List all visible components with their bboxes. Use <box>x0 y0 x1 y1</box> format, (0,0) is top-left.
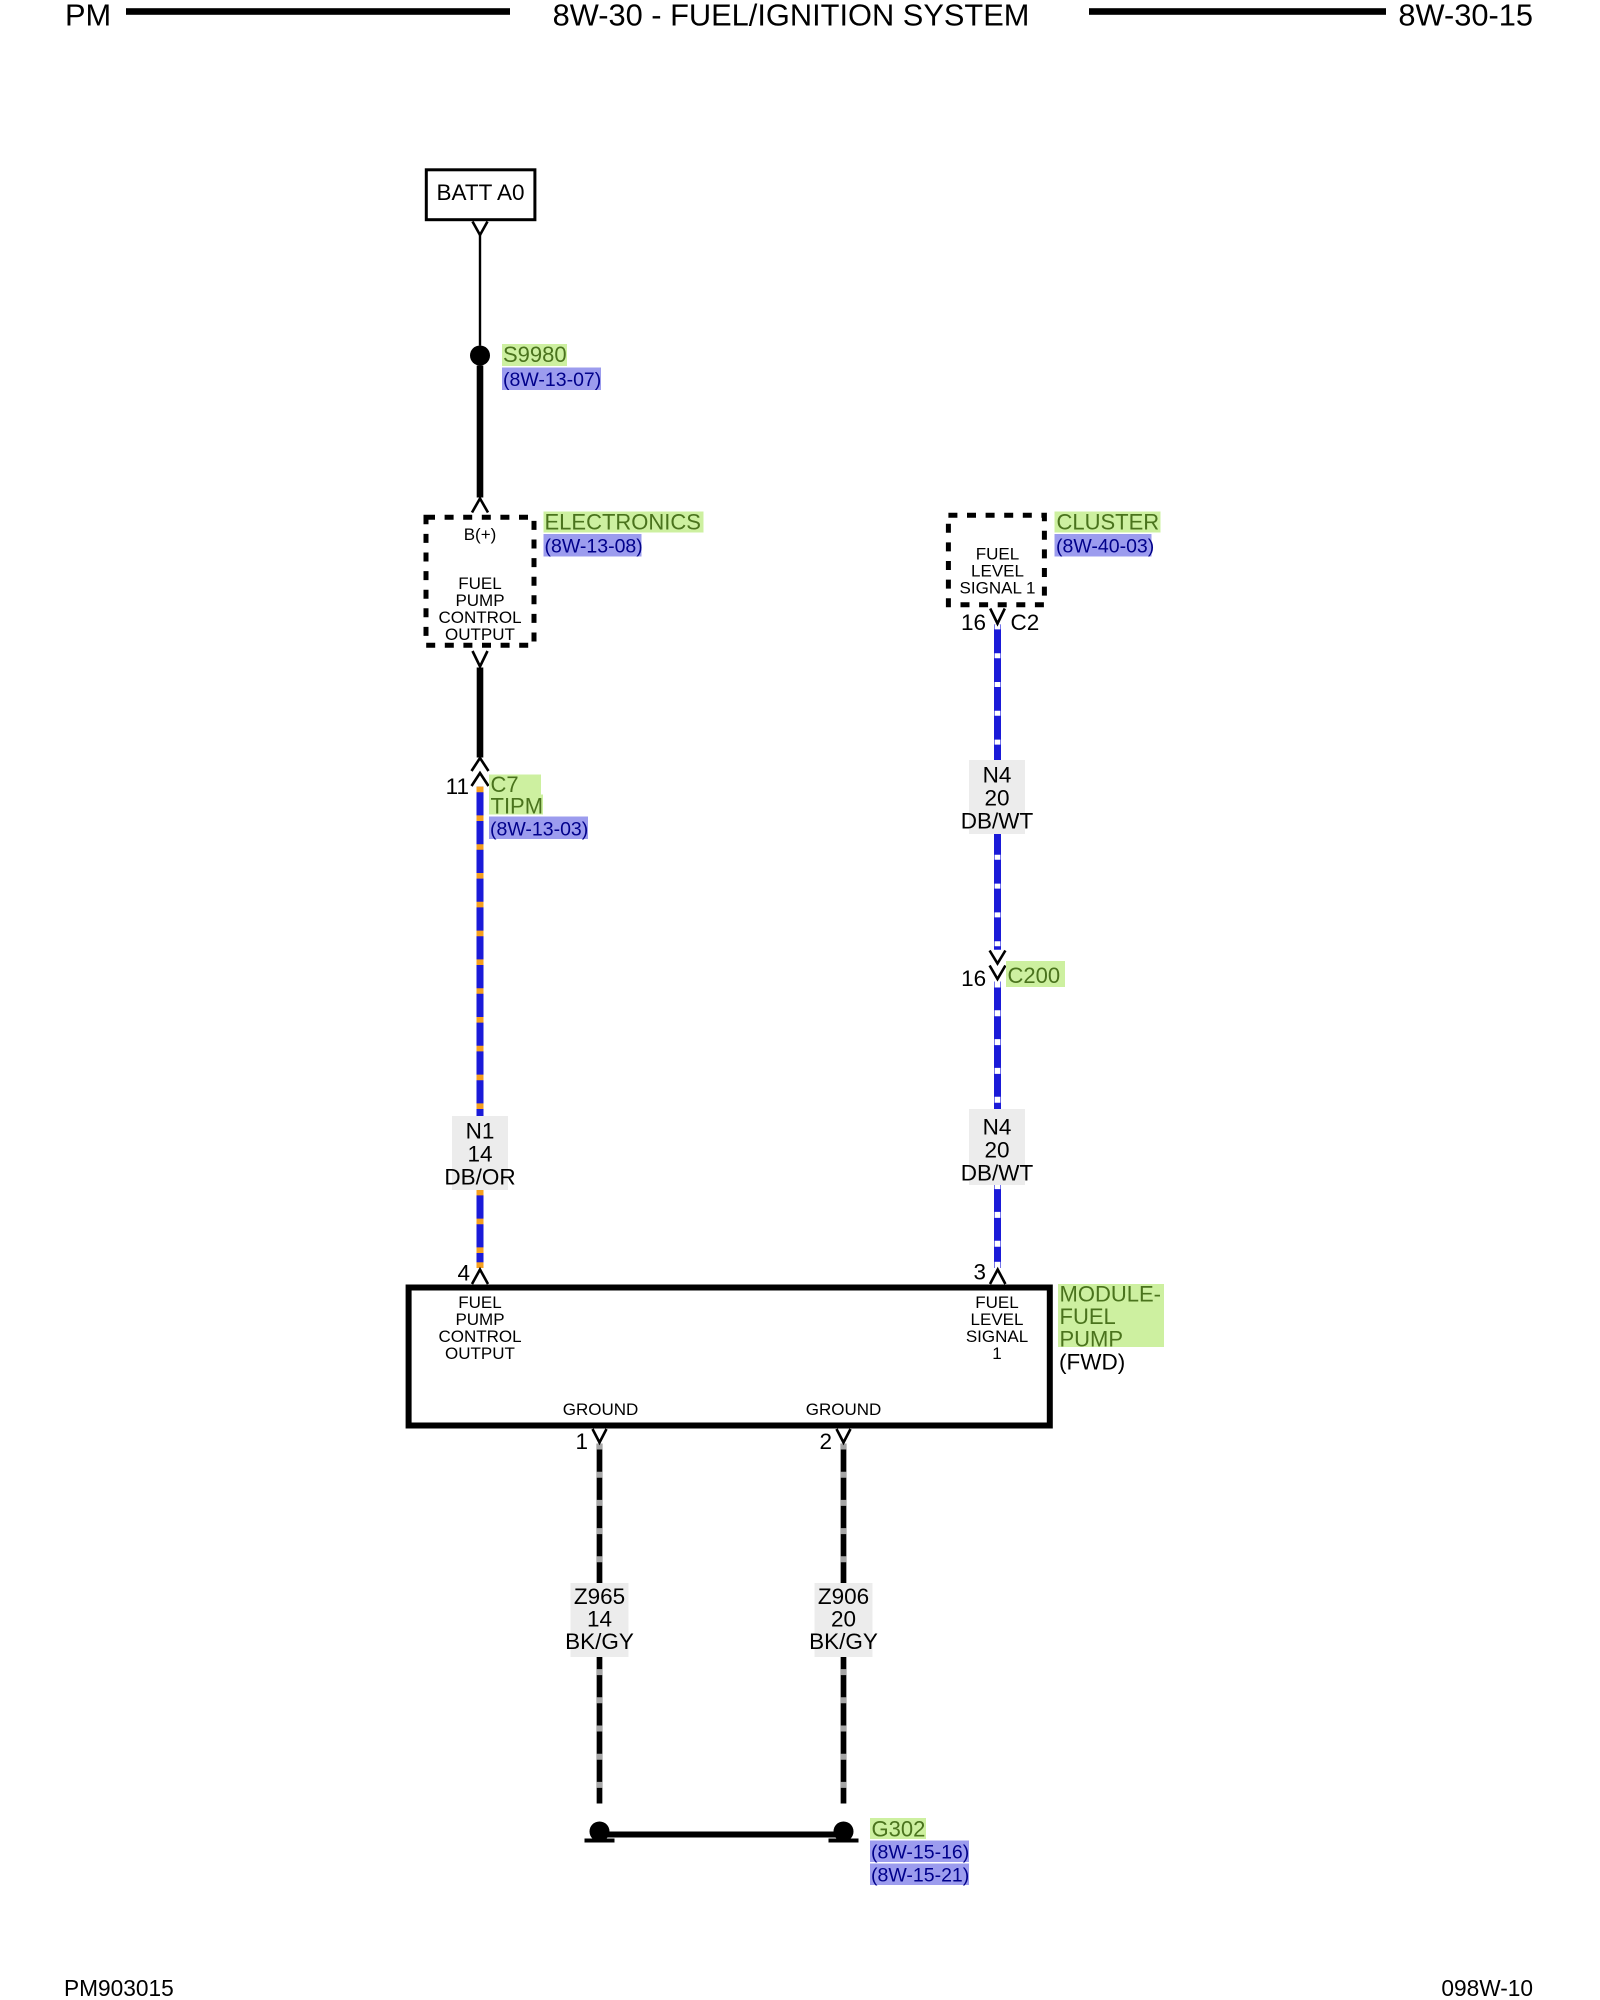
svg-text:20: 20 <box>984 786 1009 811</box>
svg-text:GROUND: GROUND <box>806 1400 882 1419</box>
svg-text:16: 16 <box>961 966 986 991</box>
svg-text:GROUND: GROUND <box>563 1400 639 1419</box>
svg-text:1: 1 <box>575 1429 588 1454</box>
svg-text:4: 4 <box>457 1261 470 1286</box>
svg-text:OUTPUT: OUTPUT <box>445 625 515 644</box>
svg-text:B(+): B(+) <box>464 525 497 544</box>
svg-text:2: 2 <box>819 1429 832 1454</box>
svg-text:20: 20 <box>984 1138 1009 1163</box>
svg-text:OUTPUT: OUTPUT <box>445 1344 515 1363</box>
svg-text:SIGNAL 1: SIGNAL 1 <box>960 579 1036 598</box>
svg-text:PM903015: PM903015 <box>64 1975 174 2000</box>
svg-text:TIPM: TIPM <box>491 794 544 819</box>
svg-text:14: 14 <box>467 1142 492 1167</box>
svg-text:20: 20 <box>831 1607 856 1632</box>
svg-text:N4: N4 <box>983 763 1012 788</box>
svg-text:1: 1 <box>992 1344 1001 1363</box>
svg-text:(8W-13-03): (8W-13-03) <box>490 819 588 841</box>
svg-text:BK/GY: BK/GY <box>809 1629 878 1654</box>
svg-text:(8W-13-08): (8W-13-08) <box>545 536 643 558</box>
svg-text:16: 16 <box>961 610 986 635</box>
svg-text:3: 3 <box>973 1260 986 1285</box>
svg-text:11: 11 <box>446 774 469 799</box>
svg-text:098W-10: 098W-10 <box>1441 1975 1533 2000</box>
svg-text:C200: C200 <box>1008 963 1061 988</box>
svg-text:FUEL: FUEL <box>1060 1304 1116 1329</box>
svg-text:Z906: Z906 <box>818 1584 869 1609</box>
svg-text:C2: C2 <box>1011 610 1040 635</box>
svg-text:S9980: S9980 <box>503 342 567 367</box>
svg-text:PM: PM <box>65 0 111 33</box>
svg-text:ELECTRONICS: ELECTRONICS <box>545 510 701 535</box>
svg-text:BATT A0: BATT A0 <box>437 180 525 205</box>
svg-text:N4: N4 <box>983 1115 1012 1140</box>
svg-text:PUMP: PUMP <box>1060 1327 1124 1352</box>
svg-text:DB/WT: DB/WT <box>961 1161 1034 1186</box>
svg-text:Z965: Z965 <box>574 1584 625 1609</box>
svg-text:(8W-15-21): (8W-15-21) <box>871 1865 969 1887</box>
svg-text:(8W-40-03): (8W-40-03) <box>1056 536 1154 558</box>
svg-text:(8W-15-16): (8W-15-16) <box>871 1842 969 1864</box>
svg-text:N1: N1 <box>466 1119 495 1144</box>
svg-text:DB/OR: DB/OR <box>444 1165 515 1190</box>
svg-text:G302: G302 <box>872 1817 926 1842</box>
svg-text:BK/GY: BK/GY <box>565 1629 634 1654</box>
svg-text:(FWD): (FWD) <box>1059 1350 1125 1375</box>
svg-text:14: 14 <box>587 1607 612 1632</box>
svg-text:DB/WT: DB/WT <box>961 809 1034 834</box>
svg-text:CLUSTER: CLUSTER <box>1057 510 1160 535</box>
svg-text:(8W-13-07): (8W-13-07) <box>503 369 601 391</box>
svg-text:MODULE-: MODULE- <box>1060 1282 1161 1307</box>
svg-text:8W-30-15: 8W-30-15 <box>1398 0 1533 33</box>
svg-text:8W-30 - FUEL/IGNITION SYSTEM: 8W-30 - FUEL/IGNITION SYSTEM <box>553 0 1030 33</box>
